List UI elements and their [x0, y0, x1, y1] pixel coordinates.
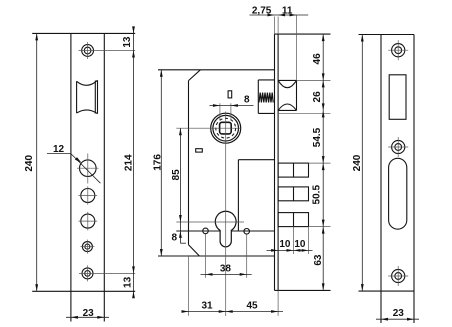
- ext lines for dim 8 square: [219, 103, 221, 120]
- dim line 8 top: [209, 105, 253, 107]
- bolt housing left edge: [237, 160, 239, 231]
- arrows right chain 63: [322, 227, 325, 234]
- faceplate back edge / case right edge: [274, 34, 276, 290]
- dim line right chain 46/26/54.5/50.5/63: [322, 34, 324, 290]
- spring box: [257, 80, 259, 114]
- hole D12: [80, 160, 97, 177]
- roller top concave arc: [77, 80, 98, 85]
- deadbolt block 2: [278, 187, 308, 201]
- dim line 23 right: [376, 318, 419, 320]
- dimension line 13/214/13: [133, 28, 135, 298]
- euro profile cylinder keyhole: [215, 211, 236, 247]
- arrows dim 38: [206, 273, 213, 276]
- crosshair middle screw: [388, 146, 408, 148]
- arrows right chain 54.5: [322, 110, 325, 117]
- small slot left of hub: [196, 149, 203, 152]
- crosshair bottom screw: [388, 275, 408, 277]
- spindle hub outer circles: [211, 113, 241, 143]
- svg-text:31: 31: [201, 300, 213, 311]
- crosshair bottom screw hole + ext line for dim 13: [79, 272, 135, 274]
- crosshair hole 2: [79, 195, 98, 197]
- crosshair hole 3: [79, 220, 98, 222]
- svg-text:8: 8: [244, 94, 250, 105]
- svg-text:2,75: 2,75: [252, 6, 272, 17]
- arrow leader 12: [75, 157, 82, 163]
- svg-text:45: 45: [246, 300, 258, 311]
- deadbolt block 3: [278, 213, 308, 227]
- faceplate top edge with extension lines: [32, 32, 135, 34]
- svg-text:214: 214: [124, 154, 135, 171]
- hole 4 small: [82, 242, 92, 252]
- deadbolt oval slot: [389, 158, 407, 229]
- roller latch side view: [296, 80, 298, 110]
- ext lines right chain: [297, 79, 331, 81]
- roller cutout left edge: [76, 81, 78, 113]
- ext lines dim 31/45: [188, 256, 190, 316]
- strike plate right edge: [413, 35, 415, 324]
- arrows dim 13 top: [132, 26, 135, 33]
- strike plate bottom edge with extension: [359, 290, 415, 292]
- svg-text:63: 63: [313, 254, 324, 266]
- dim line 10 10: [267, 249, 313, 251]
- svg-text:23: 23: [83, 308, 95, 319]
- svg-text:176: 176: [153, 154, 164, 171]
- bottom screw hole: [392, 269, 405, 282]
- arrows dim 10 10: [271, 249, 278, 252]
- hub horizontal centerline: [176, 127, 241, 129]
- spindle hub square: [220, 122, 232, 134]
- dim line 176: [160, 70, 162, 256]
- ext lines faceplate faces for dims 2,75/11: [274, 17, 276, 35]
- arrows dim 31/45: [182, 310, 189, 313]
- case bottom edge with left extension: [158, 255, 275, 257]
- arrows dim 8 top: [213, 104, 220, 107]
- dim 8 hook: [180, 242, 186, 244]
- arrows dim 240 right: [361, 35, 364, 42]
- crosshair top screw: [388, 49, 408, 51]
- faceplate left edge: [70, 33, 72, 321]
- svg-text:10: 10: [279, 239, 291, 250]
- svg-text:240: 240: [24, 155, 35, 172]
- case top-left chamfer: [189, 70, 201, 81]
- dimension line 240 left: [36, 33, 38, 291]
- svg-text:8: 8: [172, 233, 178, 244]
- strike plate top edge with extension: [359, 34, 415, 36]
- arrows dim 11: [278, 14, 285, 17]
- roller cutout right double edge: [94, 81, 96, 114]
- case top edge with left extension: [158, 69, 275, 71]
- svg-text:13: 13: [122, 36, 133, 48]
- faceplate bottom edge with extension lines: [32, 290, 135, 292]
- top screw hole: [392, 44, 405, 57]
- arrows dim 2,75: [268, 14, 275, 17]
- housing lower edge segments: [176, 230, 220, 232]
- bolt housing top edge: [238, 159, 274, 161]
- svg-text:26: 26: [312, 91, 323, 103]
- dim line 31/45: [184, 311, 284, 313]
- case left edge: [188, 81, 190, 245]
- crosshair hole 4: [80, 246, 94, 248]
- faceplate top cap with right extension: [275, 33, 331, 35]
- crosshair hole D12: [77, 167, 99, 169]
- arrows right chain 46: [322, 34, 325, 41]
- dim line 38: [201, 273, 252, 275]
- hole 3: [81, 214, 95, 228]
- crosshair top screw hole: [79, 50, 98, 52]
- svg-text:23: 23: [393, 308, 405, 319]
- arrows dim 240 left: [35, 33, 38, 40]
- arrows dim 13 bottom / 214: [132, 266, 135, 273]
- svg-text:11: 11: [282, 6, 293, 17]
- faceplate front edge: [277, 34, 279, 290]
- bottom screw hole: [82, 268, 93, 279]
- svg-text:50.5: 50.5: [311, 185, 322, 205]
- small slot above hub: [228, 91, 232, 98]
- hub dashed circle: [216, 118, 236, 138]
- ext lines dim 38: [205, 234, 207, 278]
- middle screw hole: [392, 140, 405, 153]
- ext line roller right for dim 11: [296, 15, 298, 80]
- arrows right chain 26: [322, 80, 325, 87]
- arrows right chain 50.5: [322, 163, 325, 170]
- arrows dim 23: [71, 316, 78, 319]
- top screw hole: [82, 45, 94, 57]
- case bottom-left chamfer: [189, 245, 200, 256]
- svg-text:46: 46: [312, 53, 323, 65]
- latch rectangular cutout: [389, 75, 406, 120]
- dim line 240 right: [361, 35, 363, 292]
- arrows dim 85: [179, 128, 182, 135]
- ext lines dim 10 10: [293, 227, 295, 254]
- hole 2: [81, 189, 95, 203]
- faceplate right edge: [103, 33, 105, 321]
- dimension line 23 bottom left: [66, 316, 109, 318]
- leader line for 12: [47, 153, 71, 155]
- ext line y222 cylinder center: [176, 221, 244, 223]
- faceplate bottom cap with right extension: [275, 289, 331, 291]
- arrows dim 23 right: [381, 318, 388, 321]
- svg-text:54.5: 54.5: [312, 127, 323, 147]
- arrow dim 8 left: [179, 231, 182, 238]
- dim line 2,75 / 11: [250, 14, 309, 16]
- fixing screw hole right: [244, 229, 250, 235]
- ext line from top screw hole for dim 13: [97, 50, 135, 52]
- svg-text:38: 38: [220, 263, 232, 274]
- deadbolt block 1: [278, 163, 308, 177]
- dim line 85 + 8 tail: [179, 128, 181, 243]
- arrows dim 176: [160, 70, 163, 77]
- svg-text:240: 240: [352, 154, 363, 171]
- strike plate left edge: [380, 35, 382, 324]
- fixing screw hole left: [203, 228, 209, 234]
- svg-text:85: 85: [171, 169, 182, 181]
- roller bottom concave arc: [77, 110, 98, 114]
- svg-text:10: 10: [294, 239, 306, 250]
- latch spring coil: [259, 93, 273, 103]
- svg-text:12: 12: [53, 144, 65, 155]
- svg-text:13: 13: [122, 276, 133, 288]
- vertical centerline hub to cylinder: [225, 112, 227, 317]
